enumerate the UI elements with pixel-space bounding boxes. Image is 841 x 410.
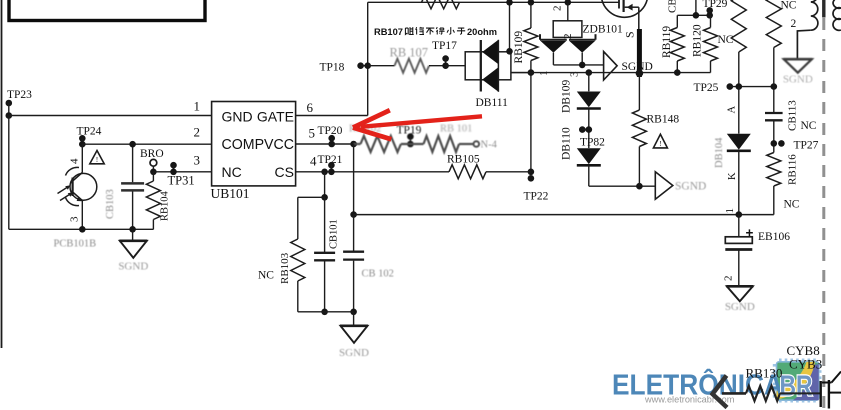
svg-text:TP18: TP18 xyxy=(320,62,345,74)
resistor RB148 xyxy=(638,73,640,110)
svg-text:4: 4 xyxy=(69,158,81,164)
svg-text:TP29: TP29 xyxy=(703,0,728,10)
wire mid rail xyxy=(354,214,739,216)
svg-text:CB: CB xyxy=(667,0,679,13)
svg-text:2: 2 xyxy=(562,34,574,40)
svg-text:2: 2 xyxy=(194,125,201,140)
svg-text:2: 2 xyxy=(552,6,564,12)
svg-text:NC: NC xyxy=(258,270,274,282)
svg-text:RB 107: RB 107 xyxy=(390,46,429,60)
optocoupler PCB101B xyxy=(81,144,83,172)
svg-text:CB113: CB113 xyxy=(787,100,799,131)
svg-text:RB 101: RB 101 xyxy=(440,124,472,135)
svg-text:20ohm: 20ohm xyxy=(467,27,497,37)
svg-text:COMPVCC: COMPVCC xyxy=(222,137,295,153)
wire main rail SGND xyxy=(511,72,711,74)
svg-text:GATE: GATE xyxy=(257,109,294,125)
wire DB110 to SGND xyxy=(589,185,656,187)
svg-text:TP31: TP31 xyxy=(168,174,195,188)
wire pin6 GATE xyxy=(296,115,368,117)
page border left xyxy=(1,0,3,348)
net SGND flag 2 xyxy=(655,172,673,200)
svg-text:CS: CS xyxy=(275,164,294,180)
svg-text:UB101: UB101 xyxy=(211,186,250,201)
wire bottom rail left xyxy=(9,228,154,230)
ground SGND under CB103 xyxy=(132,229,134,240)
svg-text:RB104: RB104 xyxy=(160,190,171,221)
capacitor EB106 electrolytic xyxy=(738,215,740,237)
watermark chevron xyxy=(713,376,728,408)
capacitor CYB right xyxy=(820,381,822,407)
svg-text:NC: NC xyxy=(222,164,242,180)
watermark logo chip xyxy=(773,359,822,403)
wire rail RB116 leg xyxy=(739,214,774,216)
svg-text:SGND: SGND xyxy=(675,181,706,193)
resistor RB103 xyxy=(297,197,299,239)
resistor RB101 (faded) xyxy=(401,143,424,145)
wire DB111 top feed xyxy=(509,2,511,52)
node TP31 xyxy=(170,162,177,169)
svg-text:1: 1 xyxy=(194,99,201,114)
diode DB110 xyxy=(577,148,601,164)
diode DB104 xyxy=(738,87,740,134)
svg-text:DB111: DB111 xyxy=(476,97,509,109)
svg-text:BRO: BRO xyxy=(140,148,164,160)
capacitor CB113 xyxy=(773,87,775,113)
transformer winding right xyxy=(833,0,841,30)
IC UB101 xyxy=(212,102,296,186)
svg-text:PCB101B: PCB101B xyxy=(54,239,97,250)
svg-text:GND: GND xyxy=(222,109,253,125)
svg-text:RB103: RB103 xyxy=(279,252,291,284)
resistor RB130 xyxy=(722,392,746,395)
svg-text:1: 1 xyxy=(724,208,736,214)
warning triangle near TP24 xyxy=(90,151,104,164)
svg-text:ZDB101: ZDB101 xyxy=(583,24,624,36)
svg-text:NC: NC xyxy=(784,199,800,211)
svg-text:TP25: TP25 xyxy=(694,82,719,94)
svg-text:TP82: TP82 xyxy=(580,137,605,149)
svg-text:DB110: DB110 xyxy=(561,127,573,160)
svg-text:TP20: TP20 xyxy=(318,125,343,137)
resistor RB119 xyxy=(676,15,678,27)
wire top rail xyxy=(368,1,619,3)
connector N-4 (faded) xyxy=(474,141,480,147)
wire bottom rail mid xyxy=(298,311,354,313)
block box top-left xyxy=(9,0,205,21)
svg-text:TP22: TP22 xyxy=(524,191,549,203)
ground SGND transformer xyxy=(783,59,812,72)
svg-text:3: 3 xyxy=(69,216,81,222)
svg-text:RB120: RB120 xyxy=(692,24,704,57)
svg-text:RB107: RB107 xyxy=(374,27,403,37)
resistor RB104 xyxy=(152,172,154,181)
resistor NC tall 2 xyxy=(766,0,781,48)
resistor RB120 xyxy=(710,15,712,27)
svg-text:RB116: RB116 xyxy=(787,154,799,185)
capacitor CB102 xyxy=(353,215,355,251)
wire thick source bar xyxy=(637,29,642,77)
svg-text:RB119: RB119 xyxy=(661,26,673,58)
svg-text:NC: NC xyxy=(801,120,817,132)
svg-text:TP27: TP27 xyxy=(794,140,819,152)
svg-text:TP23: TP23 xyxy=(7,89,32,101)
svg-text:S: S xyxy=(623,31,637,38)
wire CS bracket xyxy=(324,172,326,198)
svg-text:2: 2 xyxy=(791,18,797,30)
light arrows into PCB101B xyxy=(58,187,69,194)
node TP27 xyxy=(778,140,785,147)
net SGND flag 1 xyxy=(604,52,618,81)
wire left vertical xyxy=(8,116,10,230)
svg-text:3: 3 xyxy=(194,153,201,168)
svg-text:SGND: SGND xyxy=(725,301,755,313)
node TP22 xyxy=(528,169,535,176)
svg-text:DB109: DB109 xyxy=(561,80,573,113)
transformer winding left xyxy=(811,0,818,30)
svg-text:CYB3: CYB3 xyxy=(789,357,822,372)
resistor RB107 xyxy=(368,65,395,67)
wire TP20 vertical xyxy=(353,144,355,215)
diode DB109 xyxy=(586,69,593,76)
svg-text:EB106: EB106 xyxy=(758,231,790,243)
svg-text:CB101: CB101 xyxy=(329,219,340,249)
resistor RB109 xyxy=(528,0,535,6)
svg-text:NC: NC xyxy=(781,0,797,12)
svg-text:N-4: N-4 xyxy=(481,140,498,151)
svg-text:SGND: SGND xyxy=(118,261,148,273)
ground SGND right xyxy=(727,286,753,301)
svg-text:K: K xyxy=(727,172,738,180)
node TP82 xyxy=(579,126,586,133)
svg-text:SGND: SGND xyxy=(783,74,813,86)
svg-text:RB105: RB105 xyxy=(447,154,480,166)
svg-text:TP17: TP17 xyxy=(432,40,457,52)
resistor RB102 (faded) xyxy=(349,124,479,153)
svg-text:NC: NC xyxy=(718,34,734,46)
wire pin1 GND xyxy=(9,115,212,117)
wire top bus RB119/RB120 xyxy=(695,0,697,15)
resistor RB105 xyxy=(449,165,486,179)
dual diode DB111 xyxy=(465,52,511,80)
capacitor CB101 xyxy=(324,197,326,252)
svg-text:CB 102: CB 102 xyxy=(362,269,394,280)
svg-text:RB109: RB109 xyxy=(513,31,525,64)
svg-text:DB104: DB104 xyxy=(714,137,725,168)
svg-text:BR: BR xyxy=(780,371,813,403)
wire pin2 COMP xyxy=(82,143,211,145)
resistor top (cut) xyxy=(422,0,460,9)
svg-text:SGND: SGND xyxy=(339,347,369,359)
svg-text:!: ! xyxy=(659,139,662,148)
capacitor CB103 xyxy=(132,144,134,182)
zener ZDB101 xyxy=(565,0,572,6)
svg-text:RB148: RB148 xyxy=(647,114,680,126)
wire pin5 VCC xyxy=(296,143,354,145)
svg-text:4: 4 xyxy=(310,154,317,169)
svg-text:2: 2 xyxy=(723,276,735,282)
wire DB111 right lead xyxy=(511,72,531,74)
warning triangle near RB148 xyxy=(653,134,667,148)
svg-text:5: 5 xyxy=(309,126,316,141)
svg-text:RB130: RB130 xyxy=(746,366,783,381)
wire pin3 NC xyxy=(153,171,211,173)
red annotation arrow xyxy=(361,116,482,127)
transformer core / page split dashed xyxy=(822,0,825,18)
mosfet Q (top, cut) xyxy=(601,0,648,17)
svg-text:!: ! xyxy=(96,155,99,164)
resistor RB116 xyxy=(767,153,781,187)
svg-text:6: 6 xyxy=(307,100,314,115)
ground SGND mid xyxy=(353,312,355,326)
resistor NC tall 1 xyxy=(731,0,746,52)
wire ZDB101 bottom rail xyxy=(553,64,603,66)
svg-text:A: A xyxy=(727,106,738,114)
wire pin4 CS xyxy=(296,171,449,173)
svg-text:CB103: CB103 xyxy=(105,189,116,219)
